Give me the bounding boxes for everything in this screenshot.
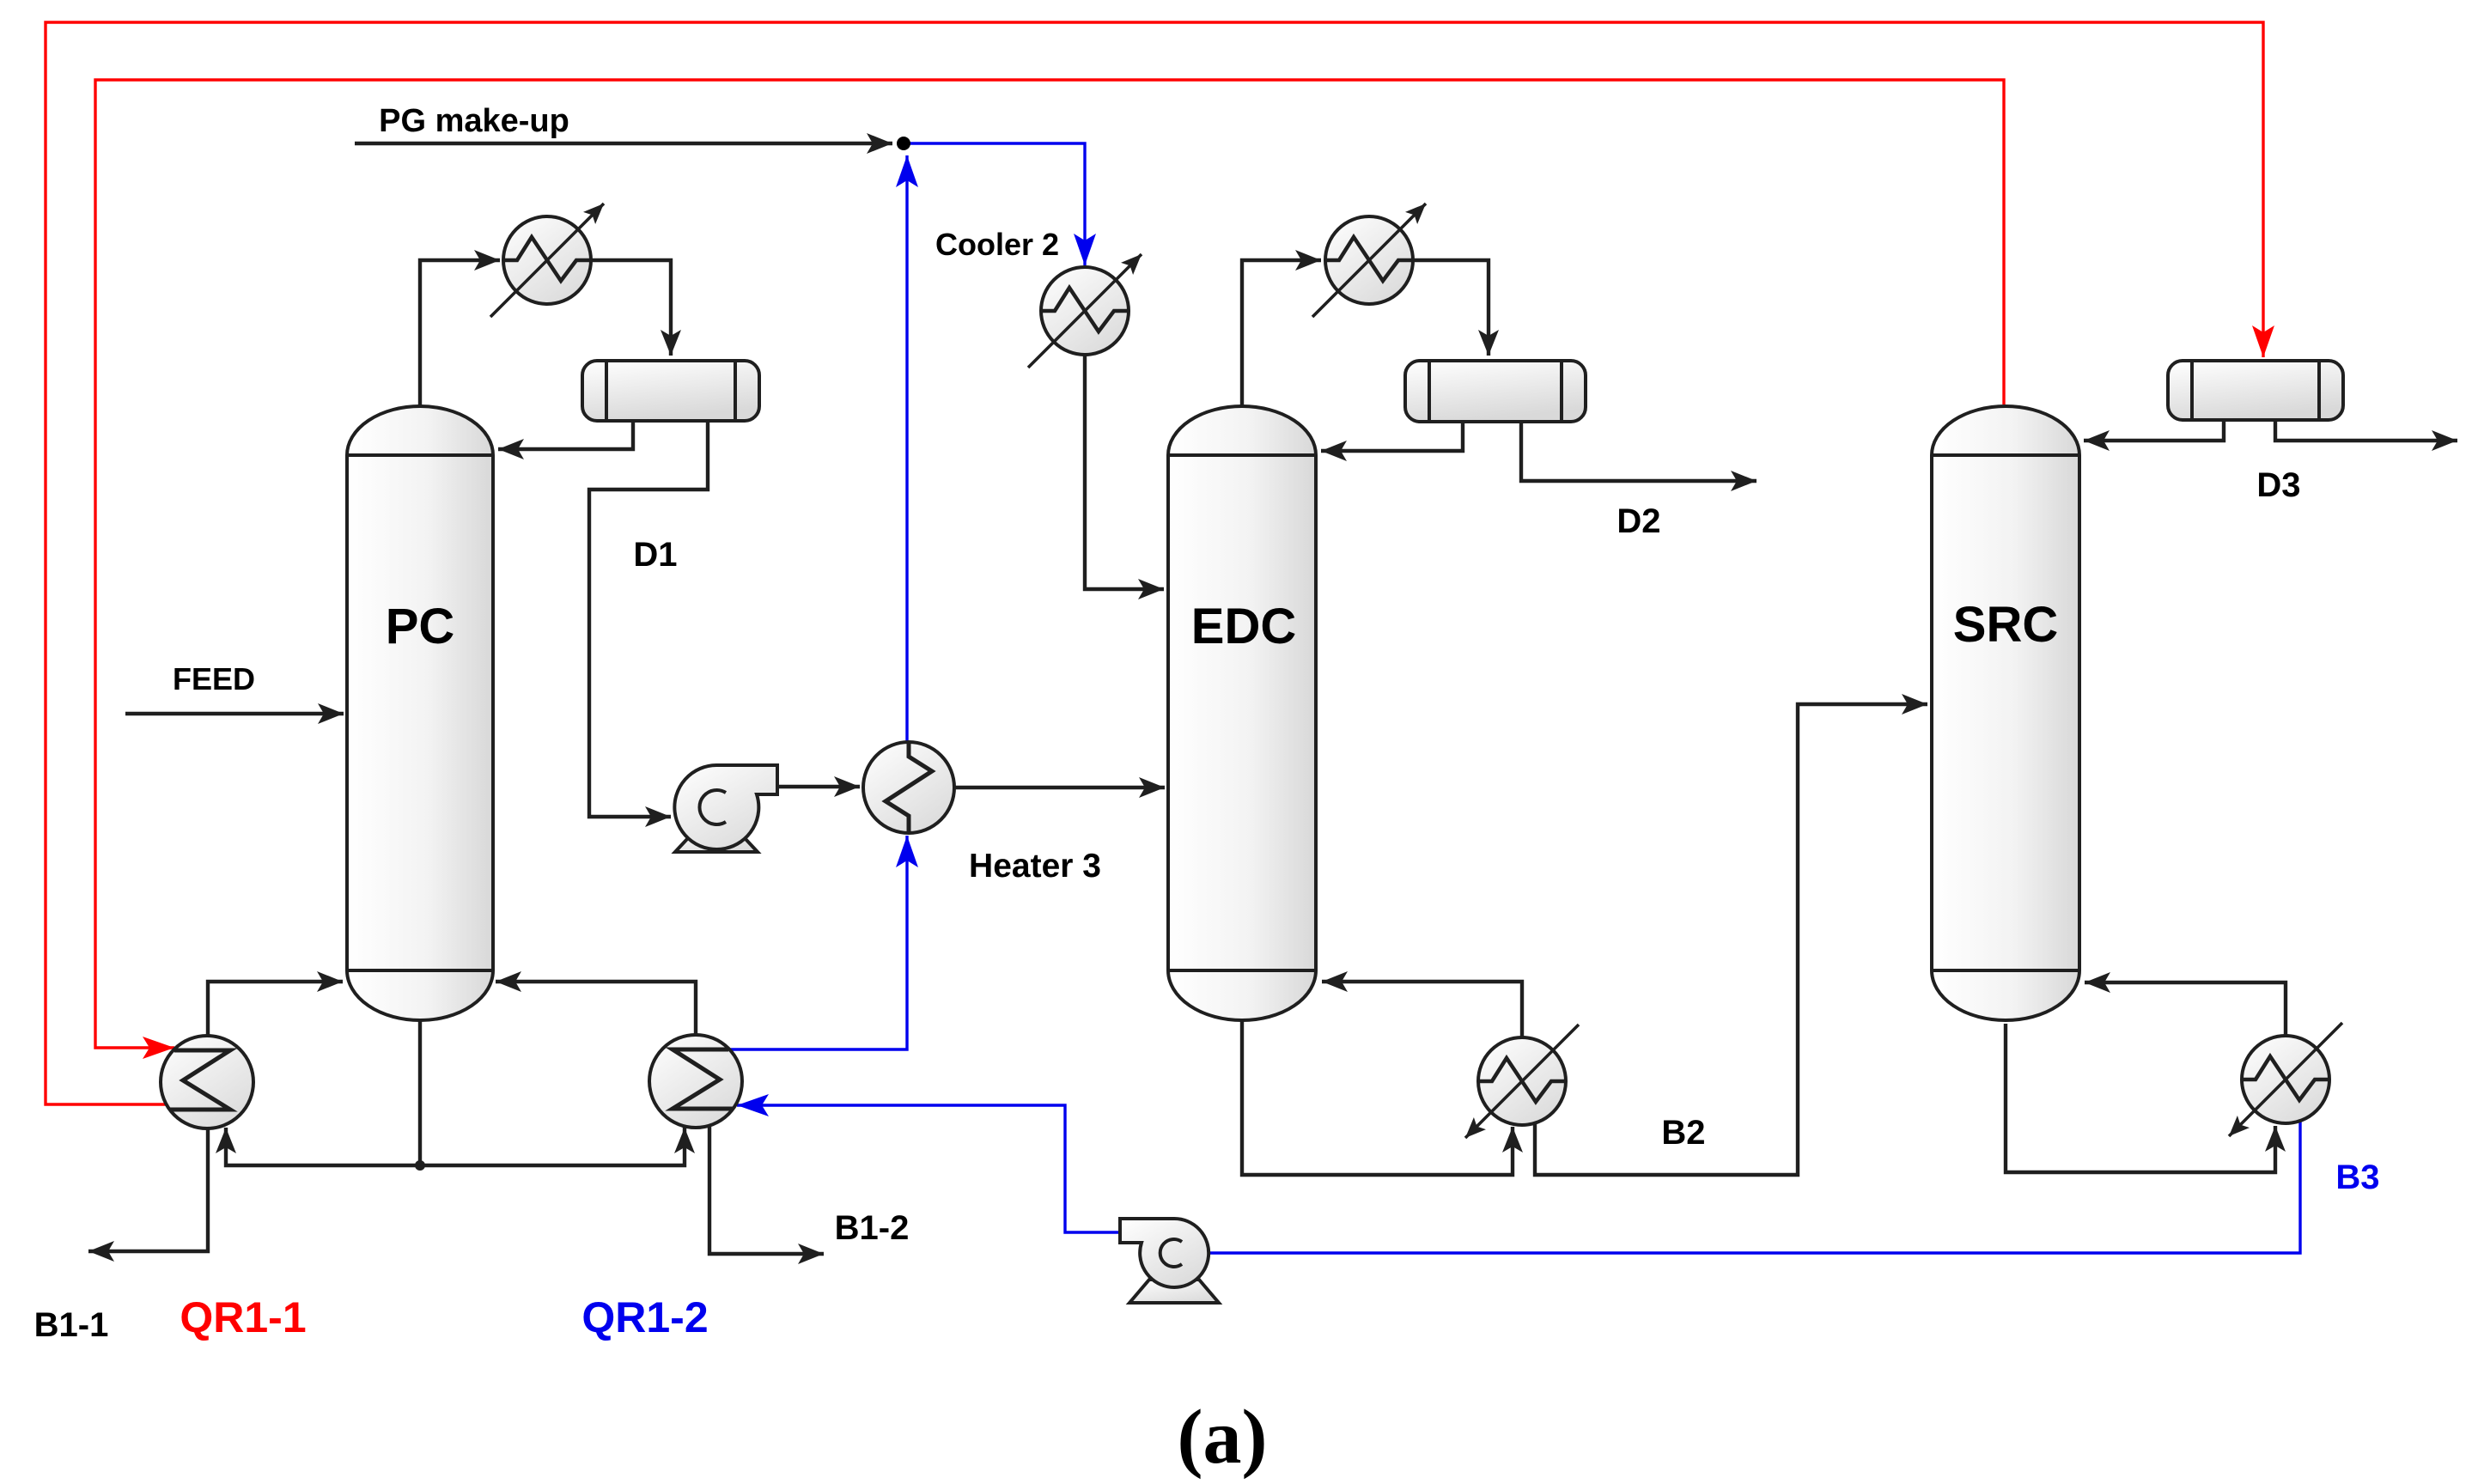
wire blue B3: reboiler outlet to pump C suction bbox=[1210, 1117, 2300, 1253]
svg-text:D2: D2 bbox=[1616, 502, 1660, 540]
wire: condenser 1 outlet to drum D1 bbox=[591, 260, 671, 356]
wire: QR1-2 vapor return to PC bbox=[496, 982, 696, 1035]
wire: EDC reboiler vapor return bbox=[1322, 982, 1522, 1037]
heater 3 (solvent / feed exchanger) bbox=[863, 742, 954, 833]
wire: PG make-up to junction bbox=[355, 142, 892, 145]
drum D3 reflux drum bbox=[2168, 361, 2343, 420]
wire: PC top vapor to condenser 1 bbox=[420, 260, 500, 408]
svg-text:QR1-2: QR1-2 bbox=[581, 1293, 708, 1341]
drum D2 reflux drum bbox=[1405, 361, 1586, 422]
wire blue: PG junction to Cooler 2 bbox=[904, 143, 1085, 265]
wire: Heater 3 outlet to EDC bbox=[954, 786, 1165, 789]
wire: FEED inlet to PC bbox=[125, 712, 344, 715]
column EDC bbox=[1168, 406, 1316, 1020]
wire: EDC bottoms to reboiler bbox=[1242, 1019, 1513, 1175]
wire: PC bottoms to QR1-2 bbox=[420, 1128, 685, 1165]
drum D1 reflux drum bbox=[582, 361, 759, 421]
wire blue: QR1-2 outlet up to Heater 3 bbox=[730, 836, 907, 1049]
wire: D2 product outlet bbox=[1521, 420, 1757, 481]
column SRC bbox=[1932, 406, 2079, 1020]
svg-text:PC: PC bbox=[386, 599, 455, 654]
svg-text:EDC: EDC bbox=[1191, 599, 1296, 654]
condenser 1 (PC overhead) bbox=[490, 204, 604, 317]
wire: Cooler 2 outlet to EDC bbox=[1085, 355, 1164, 589]
svg-text:QR1-1: QR1-1 bbox=[180, 1293, 306, 1341]
wire: EDC top vapor to condenser bbox=[1242, 260, 1321, 405]
node: bottoms junction bbox=[415, 1160, 425, 1171]
wire red outer: QR1-1 outlet to D3 drum bbox=[46, 22, 2263, 1104]
wire: D3 product outlet bbox=[2275, 420, 2457, 441]
wire: B1-2 outlet bbox=[709, 1127, 824, 1254]
svg-text:D3: D3 bbox=[2256, 466, 2300, 504]
wire blue: pump C discharge to QR1-2 bbox=[737, 1105, 1120, 1232]
wire: B1-1 outlet bbox=[88, 1128, 208, 1251]
svg-text:Heater 3: Heater 3 bbox=[969, 848, 1101, 885]
svg-text:FEED: FEED bbox=[173, 661, 255, 696]
reboiler B3 (SRC, steam heated) bbox=[2229, 1023, 2342, 1136]
node: PG make-up junction dot bbox=[897, 137, 910, 150]
svg-text:Cooler 2: Cooler 2 bbox=[935, 227, 1059, 262]
wire: PC bottoms down bbox=[418, 1020, 422, 1165]
condenser 2 (EDC overhead) bbox=[1312, 204, 1426, 317]
wire: D1 drum reflux to PC top bbox=[498, 420, 633, 449]
wire: B2 stream to SRC bbox=[1535, 704, 1927, 1175]
wire: SRC bottoms to reboiler bbox=[2006, 1024, 2275, 1172]
cooler 2 bbox=[1028, 254, 1142, 368]
svg-text:B1-1: B1-1 bbox=[34, 1306, 109, 1344]
pump C (B3 solvent pump) bbox=[1120, 1219, 1219, 1303]
column PC bbox=[347, 406, 493, 1020]
reboiler QR1-1 (heated by SRC vapor) bbox=[161, 1036, 253, 1128]
wire: SRC reboiler vapor return bbox=[2085, 982, 2286, 1035]
wire: QR1-1 vapor return to PC bbox=[208, 982, 343, 1036]
wire red inner: SRC overhead vapor to QR1-1 bbox=[95, 80, 2004, 1048]
reboiler B2 (EDC, steam heated) bbox=[1465, 1025, 1579, 1138]
wire: PC bottoms to QR1-1 bbox=[226, 1128, 420, 1165]
wire: EDC condenser outlet to drum D2 bbox=[1414, 260, 1489, 356]
wire blue: Heater 3 top to PG junction bbox=[905, 155, 908, 741]
svg-text:(a): (a) bbox=[1178, 1395, 1268, 1480]
svg-text:SRC: SRC bbox=[1953, 597, 2058, 653]
reboiler QR1-2 (heated by B3 solvent) bbox=[649, 1035, 742, 1128]
svg-text:PG make-up: PG make-up bbox=[379, 103, 569, 139]
svg-text:B2: B2 bbox=[1661, 1114, 1705, 1152]
svg-text:B3: B3 bbox=[2335, 1159, 2379, 1196]
svg-text:B1-2: B1-2 bbox=[835, 1209, 910, 1247]
pump 1 (D1 distillate pump) bbox=[674, 765, 777, 852]
svg-text:D1: D1 bbox=[633, 536, 677, 574]
wire: D2 drum reflux to EDC top bbox=[1321, 420, 1463, 451]
wire: D1 distillate to pump 1 bbox=[589, 420, 708, 817]
wire: pump 1 discharge to Heater 3 bbox=[775, 785, 860, 788]
wire: D3 drum reflux to SRC top bbox=[2084, 420, 2224, 441]
